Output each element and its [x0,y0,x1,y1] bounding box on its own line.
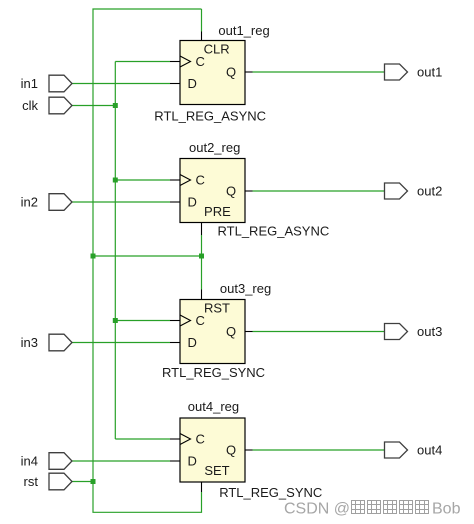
svg-text:out4_reg: out4_reg [188,399,239,414]
port in1 [49,75,72,92]
port out4 [385,442,408,458]
wire clk vertical trunk [114,62,116,440]
wire Q4 to out4 [253,449,385,451]
svg-text:D: D [188,335,197,350]
junction rst/mid-left [91,254,96,259]
svg-text:in2: in2 [21,195,38,210]
wire in2 to D2 [72,201,170,203]
svg-text:PRE: PRE [204,204,231,219]
pin stub D3 [170,342,180,344]
junction clk/clk-port [113,103,118,108]
svg-text:SET: SET [204,463,229,478]
wire clk to C1 [115,61,170,63]
svg-text:Q: Q [226,324,236,339]
wire Q2 to out2 [253,190,385,192]
pin stub Q4 [245,449,253,451]
pin stub C1 [170,61,180,63]
register out2_reg body [180,159,245,223]
svg-text:Q: Q [226,184,236,199]
port clk [49,97,72,114]
junction clk/C3 [113,318,118,323]
pin stub C2 [170,179,180,181]
svg-text:out1_reg: out1_reg [218,23,269,38]
pin stub D4 [170,460,180,462]
port rst [49,473,72,490]
svg-text:D: D [188,195,197,210]
wire clk to C2 [115,179,170,181]
svg-text:out2: out2 [417,184,442,199]
svg-text:C: C [196,54,205,69]
port out2 [385,183,408,199]
svg-text:in1: in1 [21,76,38,91]
svg-text:D: D [188,454,197,469]
svg-text:C: C [196,173,205,188]
svg-text:Q: Q [226,443,236,458]
svg-text:in4: in4 [21,454,38,469]
junction rst/rst-port [91,479,96,484]
wire Q1 to out1 [253,71,385,73]
svg-text:RTL_REG_ASYNC: RTL_REG_ASYNC [154,109,266,124]
register out4_reg body [180,418,245,482]
wire clk to C3 [115,320,170,322]
wire clk port stub [72,105,115,107]
pin stub SET4 bottom [201,482,203,492]
pin stub D2 [170,201,180,203]
svg-text:CSDN @: CSDN @ [284,501,350,518]
wire in4 to D4 [72,460,170,462]
svg-text:RST: RST [204,300,230,315]
wire rst port stub [72,481,93,483]
wire clk to C4 [115,438,170,440]
pin stub C3 [170,320,180,322]
svg-text:out3: out3 [417,324,442,339]
svg-text:C: C [196,432,205,447]
port in4 [49,453,72,470]
svg-text:Bob: Bob [432,501,461,518]
svg-text:out3_reg: out3_reg [220,281,271,296]
svg-text:out4: out4 [417,443,442,458]
svg-text:C: C [196,313,205,328]
junction rst/mid-right [199,254,204,259]
port out1 [385,64,408,80]
pin stub CLR1 top [201,32,203,41]
wire rst to CLR1 vertical drop [201,9,203,32]
svg-text:D: D [188,76,197,91]
pin stub Q2 [245,190,253,192]
watermark CSDN [284,501,461,518]
wire rst mid horizontal to PRE2/RST3 net [93,255,202,257]
wire rst net top+left+bottom run [93,9,202,512]
register out1_reg body [180,41,245,105]
port out3 [385,324,408,340]
wire Q3 to out3 [253,331,385,333]
port in3 [49,334,72,351]
pin stub Q3 [245,331,253,333]
svg-text:CLR: CLR [204,41,230,56]
svg-text:out1: out1 [417,65,442,80]
pin stub C4 [170,438,180,440]
wire in3 to D3 [72,342,170,344]
svg-text:clk: clk [22,98,38,113]
svg-text:RTL_REG_ASYNC: RTL_REG_ASYNC [218,224,330,239]
svg-text:RTL_REG_SYNC: RTL_REG_SYNC [162,365,265,380]
wire in1 to D1 [72,83,170,85]
register out3_reg body [180,300,245,364]
port in2 [49,194,72,211]
pin stub RST3 top [201,290,203,300]
junction clk/C2 [113,178,118,183]
pin stub Q1 [245,71,253,73]
svg-text:rst: rst [24,474,39,489]
svg-text:RTL_REG_SYNC: RTL_REG_SYNC [219,485,322,500]
svg-text:out2_reg: out2_reg [189,140,240,155]
wire PRE2 to RST3 vertical [201,235,203,290]
pin stub D1 [170,83,180,85]
pin stub PRE2 bottom [201,223,203,236]
svg-text:in3: in3 [21,335,38,350]
svg-text:Q: Q [226,65,236,80]
